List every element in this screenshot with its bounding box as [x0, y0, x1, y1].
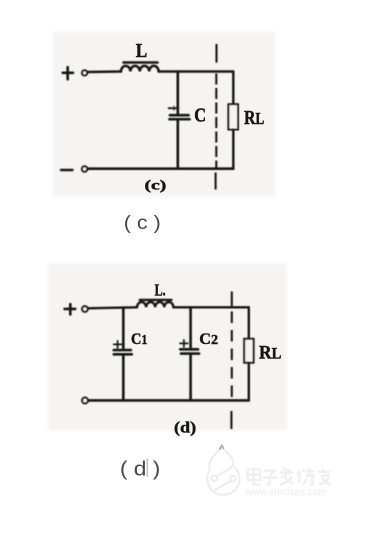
svg-text:C2: C2	[199, 331, 218, 348]
dashed separation line (c) head dash	[215, 44, 217, 63]
input terminal node top (d)	[82, 306, 88, 312]
wire: C2 bottom to bottom rail	[189, 355, 192, 400]
svg-text:RL: RL	[259, 343, 281, 363]
input terminal node bottom (d)	[82, 398, 88, 404]
capacitor C polarity plus	[169, 107, 179, 109]
input terminal node bottom (c)	[82, 166, 87, 171]
svg-text:( c ): ( c )	[124, 213, 161, 234]
svg-text:( d ): ( d )	[120, 458, 160, 480]
wire: C1 node down to C1	[122, 308, 125, 349]
inductor L1 core bar	[124, 61, 158, 64]
dashed separation line (c) tail dash	[215, 173, 217, 190]
watermark chinese text 电子发烧友	[248, 467, 332, 485]
svg-text:www.elecfans.com: www.elecfans.com	[245, 487, 327, 499]
dashed separation line (d) head dash	[231, 292, 233, 307]
bottom rail wire (d)	[88, 399, 249, 402]
inductor L2 coil	[137, 302, 173, 307]
watermark logo node right	[230, 476, 236, 482]
scan background region (d)	[48, 263, 287, 430]
capacitor C1 top plate	[114, 349, 131, 352]
wire: corner down to RL (d)	[248, 307, 250, 339]
capacitor C2 bottom plate	[181, 352, 199, 355]
wire: input to C1 node	[88, 307, 137, 308]
wire: top input to inductor	[88, 70, 121, 73]
bottom rail wire (c)	[88, 167, 234, 170]
watermark logo node left	[212, 475, 218, 481]
svg-text:(c): (c)	[145, 178, 167, 193]
plus terminal (d)	[65, 304, 76, 314]
capacitor C1 bottom plate	[114, 353, 132, 356]
svg-text:C: C	[194, 106, 206, 127]
capacitor C2 polarity plus	[180, 340, 188, 347]
svg-text:(d): (d)	[174, 419, 196, 436]
inductor L2 core bar	[140, 299, 172, 301]
wire: C2 node down to C2	[189, 307, 192, 348]
caption ( d ) cursor artifact	[147, 459, 148, 477]
resistor RL body (c)	[228, 104, 238, 129]
dashed separation line (d)	[231, 312, 233, 401]
svg-text:L.: L.	[155, 281, 166, 300]
minus terminal (c)	[61, 169, 73, 171]
watermark logo circle	[207, 466, 239, 495]
svg-text:RL: RL	[244, 107, 264, 129]
watermark logo flame	[210, 447, 234, 476]
capacitor C2 top plate	[180, 348, 198, 351]
capacitor C1 polarity plus	[114, 341, 122, 348]
plus terminal (c)	[63, 67, 73, 79]
wire: C1 bottom to bottom rail	[122, 356, 125, 401]
wire: inductor to node A	[159, 70, 234, 72]
wire: RL bottom to bottom rail	[232, 130, 234, 169]
wire: node A corner down to RL	[232, 72, 234, 105]
capacitor C top plate	[170, 114, 189, 117]
watermark logo trace 2	[214, 481, 230, 491]
inductor L1 coil	[121, 66, 159, 72]
capacitor C bottom plate	[170, 118, 190, 121]
input terminal node top (c)	[82, 70, 87, 75]
scan background region (c)	[53, 32, 275, 197]
resistor RL body (d)	[244, 339, 253, 363]
wire: capacitor C bottom to bottom rail	[177, 121, 180, 169]
dashed separation line (c)	[215, 74, 217, 169]
wire: RL bottom to bottom rail (d)	[248, 363, 250, 401]
dashed separation line (d) tail dash	[230, 411, 232, 429]
wire: node A down to capacitor C top plate	[177, 72, 180, 114]
svg-text:L: L	[136, 40, 148, 62]
svg-text:C1: C1	[131, 331, 148, 348]
watermark flame tip speck	[220, 445, 223, 450]
wire: inductor to RL corner	[173, 306, 248, 308]
